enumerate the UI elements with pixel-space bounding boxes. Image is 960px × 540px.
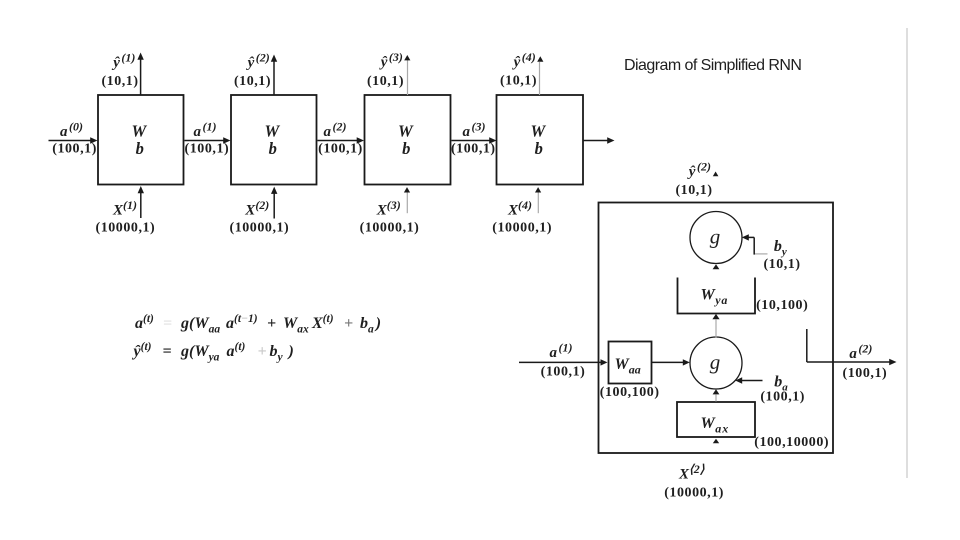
label X2 [230, 198, 290, 236]
label X1 [96, 198, 156, 236]
label (100,10000) [754, 435, 829, 450]
svg-text:(10000,1): (10000,1) [492, 221, 552, 236]
svg-text:(10000,1): (10000,1) [664, 486, 724, 501]
op circle g (top) [690, 212, 742, 264]
svg-text:(100,1): (100,1) [541, 365, 586, 380]
arrow a3 box3 to box4 [452, 137, 497, 144]
svg-text:Diagram of Simplified RNN: Diagram of Simplified RNN [624, 57, 801, 74]
svg-text:(100,1): (100,1) [318, 142, 363, 157]
svg-text:(10,100): (10,100) [756, 298, 808, 313]
arrow X2 up into box2 [271, 187, 277, 219]
arrow a1 box1 to box2 [185, 137, 231, 144]
arrow out of box4 [584, 137, 615, 144]
arrow X3 up into box3 (gray line) [404, 187, 410, 213]
label a0 [52, 120, 97, 157]
svg-text:b: b [269, 139, 277, 158]
svg-text:W: W [264, 122, 280, 141]
svg-text:g: g [710, 350, 721, 374]
svg-text:(10,1): (10,1) [763, 257, 800, 272]
svg-text:W: W [398, 122, 414, 141]
svg-text:): ) [287, 343, 294, 360]
arrow X1 up into box1 [138, 186, 144, 218]
elbow a2 out of detail box [807, 329, 897, 365]
arrow Wax up to middle circle g [713, 389, 720, 401]
label a2 [318, 120, 363, 157]
label (100,100) [600, 385, 660, 400]
svg-text:(10,1): (10,1) [367, 74, 404, 89]
label by [763, 238, 800, 272]
label (10,100) [756, 298, 808, 313]
label yhat3 [367, 50, 404, 89]
svg-text:(10000,1): (10000,1) [230, 221, 290, 236]
svg-text:(100,1): (100,1) [185, 142, 230, 157]
svg-text:(10,1): (10,1) [101, 74, 138, 89]
svg-text:W: W [131, 122, 147, 141]
label X3 [360, 198, 420, 236]
arrow yhat4 up from box4 (gray line) [537, 56, 543, 95]
arrow a1 into Waa [519, 359, 608, 365]
label a1 (detail) [541, 341, 586, 380]
arrow below Wax [713, 439, 719, 443]
op circle g (middle) [690, 337, 742, 389]
label yhat1 [101, 51, 138, 90]
svg-text:b: b [136, 139, 144, 158]
label yhat2 (detail) [675, 160, 712, 199]
arrow a0 into box1 [49, 137, 98, 144]
equation 1 [135, 313, 381, 336]
svg-text:(100,1): (100,1) [52, 142, 97, 157]
svg-text:+: + [344, 315, 353, 332]
svg-text:(10000,1): (10000,1) [96, 221, 156, 236]
svg-text:(100,1): (100,1) [451, 142, 496, 157]
svg-text:(100,10000): (100,10000) [754, 435, 829, 450]
detail cell big box [599, 203, 834, 454]
svg-text:b: b [535, 139, 543, 158]
svg-text:(100,1): (100,1) [843, 366, 888, 381]
label X2 below detail box [664, 462, 724, 501]
RNN cell box 2 [231, 95, 317, 185]
svg-text:=: = [163, 315, 172, 332]
label a3 [451, 120, 496, 157]
svg-text:=: = [163, 343, 172, 360]
label a1 [185, 120, 230, 157]
label ba [760, 374, 805, 405]
svg-text:(10,1): (10,1) [500, 74, 537, 89]
Wya open-top box [678, 278, 756, 314]
arrow yhat1 up from box1 [137, 53, 143, 96]
svg-text:+: + [267, 315, 276, 332]
svg-text:(100,100): (100,100) [600, 385, 660, 400]
arrow middle circle g up to Wya [712, 314, 719, 338]
svg-text:(10,1): (10,1) [234, 74, 271, 89]
arrow a2 box2 to box3 [318, 137, 365, 144]
arrow Wya to top circle g [713, 264, 720, 269]
RNN cell box 1 [98, 95, 184, 185]
title [624, 57, 801, 74]
svg-text:W: W [530, 122, 546, 141]
Wax box [677, 402, 755, 437]
connector by elbow into top circle g [742, 234, 768, 254]
label a2 (detail) [843, 342, 888, 382]
svg-text:(10000,1): (10000,1) [360, 221, 420, 236]
RNN cell box 3 [365, 95, 451, 185]
RNN cell box 4 [497, 95, 584, 185]
label yhat2 [234, 51, 271, 90]
arrowhead yhat2 out top of detail box [713, 172, 719, 177]
Waa box [609, 342, 652, 384]
svg-text:b: b [402, 139, 410, 158]
arrow Waa to circle g [652, 359, 690, 365]
label X4 [492, 198, 552, 236]
svg-text:+: + [258, 343, 267, 360]
equation 2 [132, 341, 294, 364]
svg-text:g: g [710, 225, 721, 249]
arrow ba into circle g [735, 377, 762, 383]
svg-text:(100,1): (100,1) [760, 390, 805, 405]
label yhat4 [500, 50, 537, 89]
slide edge line [906, 28, 908, 478]
svg-text:(10,1): (10,1) [675, 183, 712, 198]
arrow yhat2 up from box2 [271, 55, 277, 96]
arrow yhat3 up from box3 (gray line) [404, 55, 410, 95]
arrow X4 up into box4 (gray line) [535, 187, 541, 213]
